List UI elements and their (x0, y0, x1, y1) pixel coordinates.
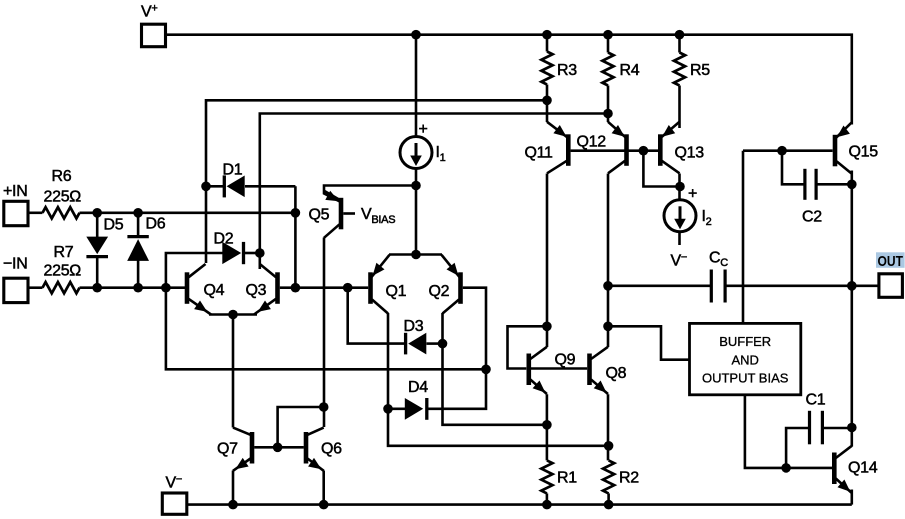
junction I1 top (411, 30, 421, 40)
wire Q13 collector lead (678, 174, 681, 201)
diode D4 (405, 398, 427, 420)
label Q15 (849, 144, 879, 161)
svg-text:OUTPUT BIAS: OUTPUT BIAS (702, 370, 789, 385)
transistor Q14 (834, 446, 852, 493)
diode D3 (406, 333, 427, 355)
wire Q9 Q8 base row (531, 367, 587, 370)
svg-text:225Ω: 225Ω (44, 189, 82, 206)
label CC (709, 250, 728, 270)
junction Q4 Q3 emitter node (228, 310, 238, 320)
wire +IN vertical (294, 186, 297, 287)
label VBIAS (361, 206, 395, 226)
wire CC to OUT (727, 284, 879, 287)
label Q13 (675, 145, 705, 162)
label -IN (3, 256, 27, 273)
diode D6 (127, 237, 149, 261)
wire Q15 base row (743, 149, 833, 152)
wire Q9 diode loop (508, 326, 547, 368)
capacitor C2 (805, 169, 816, 200)
wire R3 bottom lead (546, 85, 549, 123)
transistor Q1 (371, 255, 390, 314)
wire R1 bottom lead (546, 493, 549, 504)
transistor Q3 (254, 264, 278, 315)
resistor R6 (43, 207, 80, 218)
junction R2 bottom (604, 500, 614, 510)
svg-text:Q1: Q1 (386, 283, 407, 300)
resistor R4 (602, 53, 613, 86)
junction D1 cathode node (201, 182, 211, 192)
capacitor C1 (810, 411, 823, 445)
transistor Q2 (442, 255, 461, 314)
svg-text:Q8: Q8 (606, 365, 627, 382)
wire D5 leads (96, 213, 99, 288)
label I1 (436, 144, 446, 164)
junction D3 anode tap (343, 283, 353, 293)
wire V- rail (187, 503, 852, 506)
label R2 (619, 470, 639, 487)
label Q11 (525, 145, 554, 162)
wire +IN line (80, 212, 296, 215)
wire D3 cathode link (348, 288, 404, 344)
wire D4 anode lead (388, 407, 406, 410)
wire Q12 collector column (607, 174, 610, 348)
label D3 (404, 318, 424, 335)
label Q14 (848, 460, 878, 477)
wire Q8 emitter column (607, 394, 610, 460)
label Q3 (246, 282, 267, 299)
wire D6 leads (137, 213, 140, 288)
junction R4 bottom node (603, 109, 613, 119)
wire R3 top lead (546, 35, 549, 52)
label OUT (878, 253, 904, 270)
label D5 (104, 217, 124, 234)
label R4 (620, 62, 640, 79)
svg-text:Q12: Q12 (577, 134, 607, 151)
terminal OUT (879, 274, 903, 298)
label Q5 (309, 207, 330, 224)
svg-text:+: + (688, 186, 697, 203)
label Q1 (386, 283, 407, 300)
wire Q4 Q3 emitters to Q7 collector (232, 315, 235, 428)
wire D2 row (260, 114, 608, 270)
wire -IN to Q2 base link (166, 288, 486, 370)
wire Q8 collector to buffer (608, 326, 690, 359)
junction R5 top (675, 30, 685, 40)
junction R1 bottom (542, 500, 552, 510)
wire R4 bottom lead (607, 86, 610, 123)
label R7 value (44, 263, 82, 280)
junction D6 bottom (133, 283, 143, 293)
svg-text:D4: D4 (408, 379, 428, 396)
label Q6 (321, 441, 342, 458)
svg-text:Q2: Q2 (429, 283, 450, 300)
junction Q2 base link node (481, 365, 491, 375)
label R7 (54, 244, 74, 261)
label I2 V- (671, 252, 688, 270)
buffer and output bias block (690, 323, 801, 394)
wire C1 left lead (786, 428, 809, 468)
svg-text:D3: D3 (404, 318, 424, 335)
wire R5 bottom lead (678, 86, 681, 129)
junction Q12 base tap (639, 146, 649, 156)
label C2 (802, 209, 822, 226)
transistor Q13 (660, 122, 679, 174)
wire C1 right lead (823, 427, 852, 430)
label I2 (702, 208, 712, 228)
resistor R2 (603, 460, 614, 493)
label Q2 (429, 283, 450, 300)
wire Q6 base to collector (278, 407, 324, 447)
wire Q5 emitter row (324, 186, 416, 202)
wire -IN lead (28, 286, 43, 289)
label Q12 (577, 134, 607, 151)
junction R1 top node (542, 420, 552, 430)
transistor Q8 (590, 347, 609, 394)
svg-text:D5: D5 (104, 217, 124, 234)
svg-text:D2: D2 (214, 231, 234, 248)
svg-text:+IN: +IN (3, 183, 27, 200)
junction C2 right node (847, 180, 857, 190)
wire base row Q3 to Q1 (280, 286, 368, 289)
junction Q7 Q6 base node (273, 443, 283, 453)
wire Q7 Q6 base tie (254, 446, 304, 449)
current source I1 (400, 137, 432, 169)
label Q9 (555, 352, 576, 369)
junction D2 cathode node (255, 248, 265, 258)
junction R3 bottom node (542, 96, 552, 106)
label R1 (557, 470, 577, 487)
svg-text:Q15: Q15 (849, 144, 879, 161)
terminal V- (162, 493, 187, 514)
terminal +IN (4, 201, 28, 225)
wire V+ rail (167, 35, 852, 125)
svg-text:Q3: Q3 (246, 282, 267, 299)
junction R3 top (542, 30, 552, 40)
label R5 (690, 62, 710, 79)
svg-text:Q13: Q13 (675, 145, 705, 162)
label R6 (52, 168, 72, 185)
junction I2 top node (675, 182, 685, 192)
label R3 (557, 62, 577, 79)
junction D5 top (92, 208, 102, 218)
wire D2 cathode lead (245, 252, 260, 255)
wire D2 anode link (166, 253, 223, 288)
junction C2 left tap (777, 146, 787, 156)
label Q4 (204, 282, 225, 299)
wire Q9 emitter column (546, 394, 549, 460)
transistor Q5 (324, 191, 355, 238)
wire R4 top lead (607, 35, 610, 53)
junction C1 left node (781, 463, 791, 473)
wire Q2 base to D4 (428, 288, 486, 409)
wire Q14 emitter lead (850, 490, 853, 505)
resistor R7 (43, 282, 80, 293)
label D2 (214, 231, 234, 248)
diode D2 (222, 242, 243, 264)
wire Q1 collector (387, 313, 390, 409)
junction R2 top node (604, 441, 614, 451)
label Q8 (606, 365, 627, 382)
junction D4 anode node (383, 404, 393, 414)
junction Q5 emitter node (411, 181, 421, 191)
junction Q7 emitter (228, 500, 238, 510)
svg-text:D1: D1 (223, 162, 243, 179)
junction R4 top (603, 30, 613, 40)
junction D6 top (133, 208, 143, 218)
transistor Q4 (187, 264, 211, 315)
junction C1 right node (847, 423, 857, 433)
label D1 (223, 162, 243, 179)
wire +IN lead (28, 212, 43, 215)
svg-text:R2: R2 (619, 470, 639, 487)
transistor Q11 (547, 122, 568, 174)
wire D1 anode lead (245, 185, 295, 188)
wire buffer to Q14 base (745, 395, 832, 468)
terminal V+ (142, 24, 166, 47)
svg-text:Q5: Q5 (309, 207, 330, 224)
wire Q15 collector column (850, 171, 853, 447)
svg-text:R6: R6 (52, 168, 72, 185)
transistor Q9 (529, 347, 547, 394)
diode D1 (206, 175, 245, 197)
wire D1 row (206, 100, 547, 263)
capacitor CC (711, 270, 725, 303)
label I2 plus (688, 186, 697, 203)
svg-text:Q4: Q4 (204, 282, 225, 299)
svg-text:R4: R4 (620, 62, 640, 79)
wire Q4 Q3 emitter bus (209, 313, 257, 316)
svg-text:R7: R7 (54, 244, 74, 261)
wire C2 left lead (782, 151, 804, 185)
junction Q6 emitter (319, 500, 329, 510)
wire D4 anode to R2 row (388, 409, 609, 446)
transistor Q7 (233, 428, 252, 471)
label D4 (408, 379, 428, 396)
svg-text:OUT: OUT (878, 253, 904, 270)
wire D3 anode lead (427, 342, 443, 345)
junction D5 bottom (92, 283, 102, 293)
junction Q3 base node (291, 283, 301, 293)
junction D2 anode tap (161, 283, 171, 293)
svg-text:−IN: −IN (3, 256, 27, 273)
svg-text:+: + (419, 121, 428, 138)
label R6 value (44, 189, 82, 206)
resistor R1 (541, 460, 552, 493)
wire R5 top lead (678, 35, 681, 53)
label +IN (3, 183, 27, 200)
junction Q8 collector node (603, 322, 613, 332)
wire Q5 collector to Q6 (323, 238, 326, 428)
current source I2 (664, 200, 696, 232)
resistor R3 (541, 52, 552, 85)
wire Q11 collector column (546, 174, 549, 348)
label Q7 (217, 441, 238, 458)
transistor Q15 (835, 122, 852, 174)
svg-text:Q6: Q6 (321, 441, 342, 458)
wire compensation row (608, 284, 710, 287)
svg-text:AND: AND (731, 352, 758, 367)
junction Q1 Q2 emitter node (411, 250, 421, 260)
junction D3 anode node (438, 339, 448, 349)
junction output node (847, 281, 857, 291)
wire Q7 emitter lead (232, 471, 235, 505)
diode D5 (86, 237, 108, 257)
wire R2 bottom lead (607, 493, 610, 504)
svg-text:D6: D6 (146, 216, 166, 233)
junction Q6 collector tap (319, 402, 329, 412)
wire Q15 base to buffer (742, 151, 745, 323)
svg-text:Q14: Q14 (848, 460, 878, 477)
transistor Q12 (608, 122, 627, 174)
wire base to I2 link (643, 151, 679, 187)
label C1 (806, 392, 826, 409)
wire -IN line (80, 286, 186, 289)
svg-text:Q9: Q9 (555, 352, 576, 369)
label V+ (141, 3, 158, 21)
junction +IN node (291, 208, 301, 218)
transistor Q6 (306, 428, 324, 471)
svg-text:C1: C1 (806, 392, 826, 409)
wire Q2 collector (443, 313, 547, 425)
label D6 (146, 216, 166, 233)
svg-text:R3: R3 (557, 62, 577, 79)
svg-text:R1: R1 (557, 470, 577, 487)
wire C2 right lead (817, 183, 852, 186)
svg-text:R5: R5 (690, 62, 710, 79)
svg-text:BUFFER: BUFFER (719, 334, 771, 349)
wire I2 bottom lead (678, 232, 681, 245)
terminal -IN (4, 278, 28, 302)
resistor R5 (674, 53, 685, 86)
label I1 plus (419, 121, 428, 138)
wire I1 top lead (415, 35, 418, 137)
junction compensation node (603, 281, 613, 291)
svg-text:Q7: Q7 (217, 441, 238, 458)
wire I1 to input pair emitters (415, 168, 418, 255)
svg-text:C2: C2 (802, 209, 822, 226)
wire Q1 Q2 emitter bus (389, 253, 442, 256)
label V- (166, 474, 183, 492)
svg-text:Q11: Q11 (525, 145, 554, 162)
wire Q11 Q12 Q13 base row (571, 149, 658, 152)
junction Q9 collector node (542, 322, 552, 332)
label OUT highlight (876, 252, 905, 267)
wire Q6 emitter lead (322, 471, 325, 505)
svg-text:225Ω: 225Ω (44, 263, 82, 280)
